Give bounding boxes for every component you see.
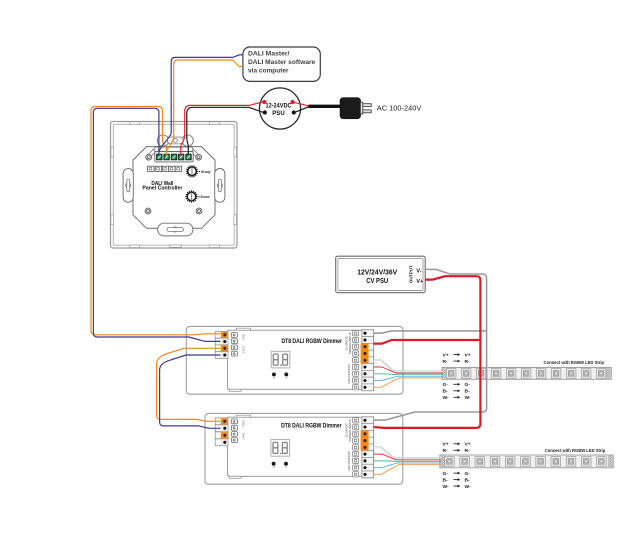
wire: U3 LED B- blue — [374, 463, 442, 468]
wire: PSU1 AC side red — [294, 102, 309, 106]
svg-text:DALI Master/: DALI Master/ — [248, 51, 290, 58]
svg-text:AC 100-240V: AC 100-240V — [377, 104, 422, 113]
svg-text:Connect with RGBW LED Strip: Connect with RGBW LED Strip — [544, 360, 605, 365]
cable clamp collar — [154, 147, 193, 151]
wire: U3 LED G- green — [374, 460, 442, 463]
svg-text:12-24VDC: 12-24VDC — [266, 102, 292, 109]
svg-text:B-: B- — [443, 389, 449, 395]
strain relief wings — [145, 148, 201, 158]
left slot — [123, 169, 133, 203]
rotary knob Scene — [185, 190, 197, 202]
RGBW LED strip LS1 — [442, 368, 611, 380]
svg-text:G-: G- — [443, 382, 449, 388]
svg-text:V+: V+ — [443, 352, 449, 358]
svg-text:DALI: DALI — [241, 420, 245, 427]
7-segment display — [271, 440, 290, 457]
mounting tabs — [111, 122, 237, 248]
svg-text:G-: G- — [465, 471, 471, 477]
wire: DALI bus DA+ orange panel to dimmer U2 — [91, 107, 221, 335]
svg-text:Panel Controller: Panel Controller — [142, 185, 183, 191]
svg-text:Group: Group — [201, 169, 211, 174]
net labels V+ R- — [443, 352, 471, 365]
DALI Master box U4 — [243, 47, 320, 81]
svg-text:DALI: DALI — [241, 433, 245, 440]
wire: U3 LED R- red — [374, 454, 442, 460]
U3 power input and LED output terminal strip — [353, 417, 374, 478]
net labels G- B- W- — [443, 382, 472, 401]
wire: DALI daisy chain orange U2 to U3 — [157, 348, 221, 421]
rotary knob Group — [186, 165, 198, 177]
cable entry bumps — [157, 135, 168, 146]
svg-text:W-: W- — [443, 484, 450, 490]
net labels V+ R- — [443, 442, 471, 455]
svg-text:DT8 DALI RGBW Dimmer: DT8 DALI RGBW Dimmer — [281, 339, 342, 345]
svg-text:OUTPUT: OUTPUT — [408, 265, 414, 283]
svg-text:V+: V+ — [416, 279, 423, 285]
PSU1 terminals — [262, 100, 296, 115]
svg-text:W-: W- — [465, 484, 472, 490]
wire: U2 LED R- red — [374, 367, 444, 373]
wire: U2 LED G- green — [374, 373, 444, 376]
svg-text:DALI: DALI — [241, 334, 245, 341]
wire: DALI to master orange — [166, 60, 243, 152]
wire: U3 LED V+ white — [374, 447, 442, 458]
power supply PSU1 12-24VDC — [259, 88, 300, 129]
wire: PSU1 DC+ red to panel — [181, 102, 263, 155]
unused clamp highlight — [361, 430, 369, 450]
wire: DALI daisy chain blue U2 to U3 — [160, 355, 221, 428]
octagon module outline — [133, 147, 215, 229]
svg-text:B-: B- — [465, 477, 471, 483]
svg-text:LED OUTPUT: LED OUTPUT — [347, 451, 351, 471]
right slot — [215, 169, 225, 203]
pushbuttons — [272, 372, 288, 378]
svg-text:via computer: via computer — [248, 67, 289, 74]
U2 DALI input terminal strip — [215, 331, 228, 358]
svg-text:CV PSU: CV PSU — [366, 276, 388, 285]
screws — [146, 154, 152, 160]
wire: DALI to master navy — [159, 55, 243, 152]
wire: DALI bus DA- blue panel to dimmer U2 — [93, 108, 220, 341]
svg-text:LED OUTPUT: LED OUTPUT — [347, 364, 351, 384]
bottom slot — [158, 223, 193, 236]
svg-text:V+: V+ — [465, 442, 471, 448]
svg-text:PSU: PSU — [272, 110, 285, 117]
svg-text:DT8 DALI RGBW Dimmer: DT8 DALI RGBW Dimmer — [281, 423, 342, 429]
svg-text:DALI Master software: DALI Master software — [248, 59, 316, 66]
svg-text:R-: R- — [443, 448, 449, 454]
DT8 DALI RGBW Dimmer U2 — [186, 326, 403, 394]
svg-text:R-: R- — [443, 359, 449, 365]
DT8 DALI RGBW Dimmer U3 — [205, 413, 403, 484]
unused clamp highlight — [361, 343, 369, 363]
svg-text:V+: V+ — [465, 352, 471, 358]
RGBW LED strip LS2 — [440, 455, 613, 468]
DIP switch bank — [148, 166, 154, 171]
wire: V+ red from CV PSU to dimmers — [374, 276, 481, 428]
svg-text:Scene: Scene — [200, 194, 210, 199]
wire: U3 LED W- orange — [374, 465, 442, 475]
svg-text:W-: W- — [443, 395, 450, 401]
pushbuttons — [272, 462, 288, 468]
U2 DALI bus screw contacts — [231, 333, 237, 357]
svg-text:B-: B- — [465, 389, 471, 395]
DALI Wall Panel Controller U1 — [111, 122, 238, 249]
wire: V- gray from CV PSU to dimmers — [374, 269, 487, 420]
wire: PSU1 AC side black — [296, 107, 310, 113]
svg-text:V-: V- — [416, 268, 421, 274]
svg-text:W-: W- — [465, 395, 472, 401]
svg-text:V+: V+ — [443, 442, 449, 448]
U2 power input and LED output terminal strip — [353, 330, 374, 391]
svg-text:G-: G- — [465, 382, 471, 388]
svg-text:G-: G- — [443, 471, 449, 477]
U3 DALI bus screw contacts — [231, 419, 237, 443]
svg-text:B-: B- — [443, 477, 449, 483]
DALI terminal block TB1 — [155, 152, 193, 162]
wire: PSU1 DC- black to panel — [187, 107, 263, 155]
wire: U2 LED V+ white — [374, 360, 444, 371]
svg-text:R-: R- — [465, 359, 471, 365]
svg-text:Connect with RGBW LED Strip: Connect with RGBW LED Strip — [545, 448, 606, 453]
svg-text:R-: R- — [465, 448, 471, 454]
wire: AC mains cable — [309, 105, 341, 108]
wire: U2 LED W- orange — [374, 378, 444, 387]
AC plug P1 — [340, 98, 371, 119]
svg-text:DALI: DALI — [241, 346, 245, 353]
CV PSU U5 12V/24V/36V — [336, 256, 426, 293]
U3 DALI input terminal strip — [215, 418, 228, 446]
wire: U2 LED B- blue — [374, 376, 444, 380]
net labels G- B- W- — [443, 471, 472, 490]
7-segment display — [271, 351, 290, 368]
